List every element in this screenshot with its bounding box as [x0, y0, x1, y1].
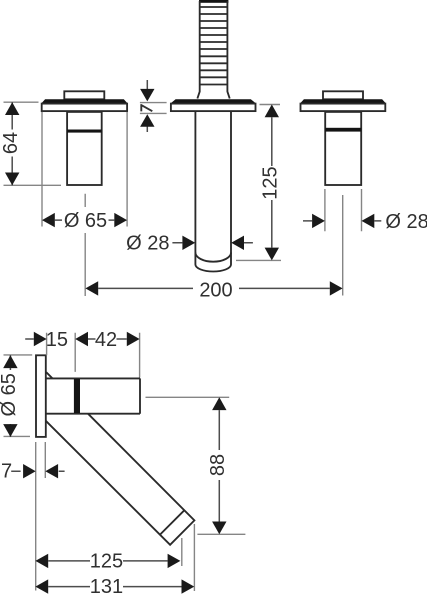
- svg-text:64: 64: [0, 132, 22, 154]
- svg-text:88: 88: [207, 454, 229, 476]
- svg-text:7: 7: [1, 461, 12, 483]
- svg-text:Ø 28: Ø 28: [126, 232, 169, 254]
- svg-text:131: 131: [90, 576, 123, 598]
- svg-text:15: 15: [46, 329, 68, 351]
- svg-text:125: 125: [90, 550, 123, 572]
- svg-text:200: 200: [199, 279, 232, 301]
- svg-text:42: 42: [95, 329, 117, 351]
- svg-text:Ø 65: Ø 65: [64, 210, 107, 232]
- svg-text:Ø 28: Ø 28: [385, 211, 427, 233]
- svg-text:125: 125: [260, 166, 282, 199]
- svg-text:Ø 65: Ø 65: [0, 373, 20, 416]
